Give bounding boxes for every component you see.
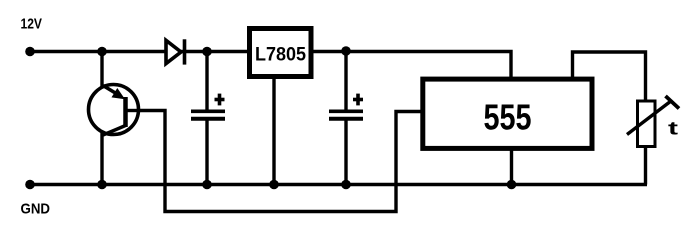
potentiometer R1 (trimmer) <box>627 96 679 147</box>
node diode cathode junction <box>202 47 212 57</box>
node transistor collector junction <box>97 180 107 190</box>
svg-text:555: 555 <box>484 97 532 138</box>
wire 555 pin to potentiometer top <box>573 52 646 100</box>
wire top rail right segment (diode cathode to 555 pin corner) <box>180 52 511 81</box>
transistor Q1 <box>89 85 139 136</box>
node L7805 ground junction <box>269 180 279 190</box>
timer U2 555 box <box>423 79 592 148</box>
wire capacitor C1 top branch <box>205 52 208 112</box>
wire transistor emitter to 12V rail <box>100 52 103 89</box>
capacitor C2 <box>329 94 363 119</box>
svg-text:L7805: L7805 <box>255 44 306 66</box>
wire capacitor C2 top branch <box>344 52 347 112</box>
wire capacitor C2 bottom branch <box>344 119 347 185</box>
diode D1 <box>166 39 185 64</box>
svg-text:t: t <box>668 118 678 139</box>
node GND terminal <box>25 180 35 190</box>
wire capacitor C1 bottom branch <box>205 119 208 185</box>
wire top rail left segment (12V to diode) <box>30 50 166 53</box>
node C2 ground junction <box>341 180 351 190</box>
capacitor C1 <box>191 94 225 119</box>
regulator U1 L7805 box <box>250 29 312 77</box>
wire L7805 ground pin <box>272 78 275 185</box>
wire transistor base to 555 output <box>138 111 421 212</box>
node L7805 output junction <box>341 46 351 56</box>
wire GND bottom rail <box>30 183 647 186</box>
svg-text:GND: GND <box>21 201 51 218</box>
svg-text:12V: 12V <box>21 16 43 33</box>
node C1 ground junction <box>202 180 212 190</box>
wire potentiometer bottom to GND rail <box>644 147 647 185</box>
node transistor emitter junction <box>97 47 107 57</box>
wire transistor collector to GND rail <box>100 133 103 185</box>
node 555 ground junction <box>507 180 517 190</box>
wire 555 ground pin <box>510 149 513 185</box>
node 12V terminal <box>25 47 35 57</box>
